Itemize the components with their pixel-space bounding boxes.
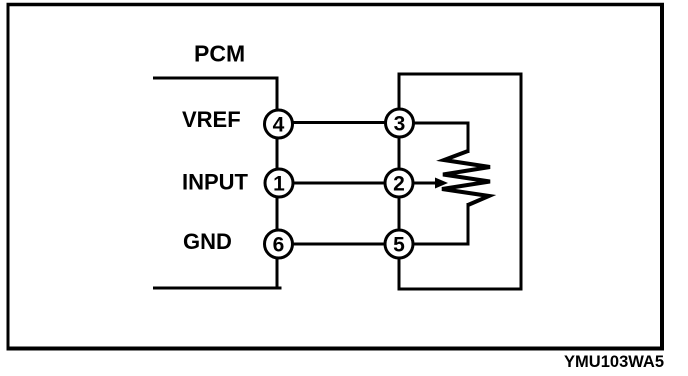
svg-text:6: 6 <box>273 234 285 257</box>
pin 6 <box>265 230 293 258</box>
svg-text:5: 5 <box>393 234 405 257</box>
potentiometer resistive element <box>442 151 490 205</box>
wire PCM connector left vertical <box>276 77 279 290</box>
wiper arrow from pin 2 <box>412 178 448 189</box>
svg-text:PCM: PCM <box>194 41 245 67</box>
wire PCM connector bottom <box>153 287 282 290</box>
svg-text:4: 4 <box>273 114 285 137</box>
wire 3 to potentiometer top <box>411 123 468 153</box>
pin 5 <box>385 230 413 258</box>
svg-text:3: 3 <box>394 113 406 136</box>
wire 5 to potentiometer bottom <box>411 203 468 244</box>
wire PCM connector top <box>153 77 279 80</box>
net label VREF <box>182 107 241 132</box>
pin 2 <box>385 169 413 197</box>
pin 3 <box>386 109 414 137</box>
PCM label <box>194 41 245 67</box>
svg-text:2: 2 <box>393 173 405 196</box>
wire 6 to 5 <box>290 243 387 246</box>
pin 1 <box>265 169 293 197</box>
svg-text:YMU103WA5: YMU103WA5 <box>564 353 664 371</box>
net label INPUT <box>182 170 249 195</box>
svg-text:INPUT: INPUT <box>182 170 249 195</box>
svg-text:VREF: VREF <box>182 107 241 132</box>
sensor housing box <box>399 74 521 289</box>
svg-text:GND: GND <box>183 229 232 254</box>
wire 1 to 2 <box>291 182 387 185</box>
figure code label YMU103WA5 <box>564 353 664 371</box>
svg-text:1: 1 <box>273 173 285 196</box>
net label GND <box>183 229 232 254</box>
pin 4 <box>265 110 293 138</box>
wire 4 to 3 <box>290 121 387 124</box>
